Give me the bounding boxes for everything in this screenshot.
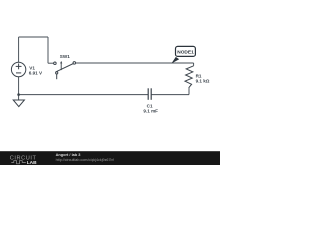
node NODE1 box (176, 46, 196, 56)
ground (13, 100, 24, 107)
node junction dot (17, 93, 20, 96)
node NODE1 flag arrow (171, 57, 179, 64)
switch lever (56, 64, 74, 72)
wire V1 top lead (18, 37, 20, 62)
wire bottom rail right (151, 94, 189, 96)
svg-text:9.1 kΩ: 9.1 kΩ (196, 79, 210, 84)
svg-text:C1: C1 (147, 103, 153, 108)
svg-text:6.91 V: 6.91 V (29, 71, 43, 76)
svg-text:NODE1: NODE1 (177, 50, 194, 56)
svg-text:http://circuitlab.com/c/qkj4ck: http://circuitlab.com/c/qkj4ckj9z67bf (56, 158, 115, 162)
svg-text:SW1: SW1 (60, 54, 70, 59)
wire stub to SW1 left throw (48, 62, 54, 64)
switch actuator arrow (60, 63, 62, 71)
wire V1 bottom lead (18, 77, 20, 95)
voltage source V1 (11, 62, 25, 76)
svg-text:LAB: LAB (27, 160, 37, 165)
footer logo squiggle (11, 161, 25, 164)
wire SW1 common to R1 (75, 62, 193, 64)
capacitor C1 (148, 88, 151, 100)
wire bottom rail left (19, 94, 148, 96)
wire drop to switch (47, 37, 49, 63)
wire top rail (19, 36, 48, 38)
wire ground stub (18, 95, 20, 100)
svg-text:Angort / lab 3: Angort / lab 3 (56, 152, 82, 157)
svg-text:9.1 mF: 9.1 mF (143, 109, 158, 114)
footer bar (0, 151, 220, 165)
resistor R1 (185, 66, 194, 89)
switch SW1 (54, 61, 76, 79)
wire R1 bottom lead (188, 89, 190, 95)
wire R1 top lead (193, 63, 195, 66)
